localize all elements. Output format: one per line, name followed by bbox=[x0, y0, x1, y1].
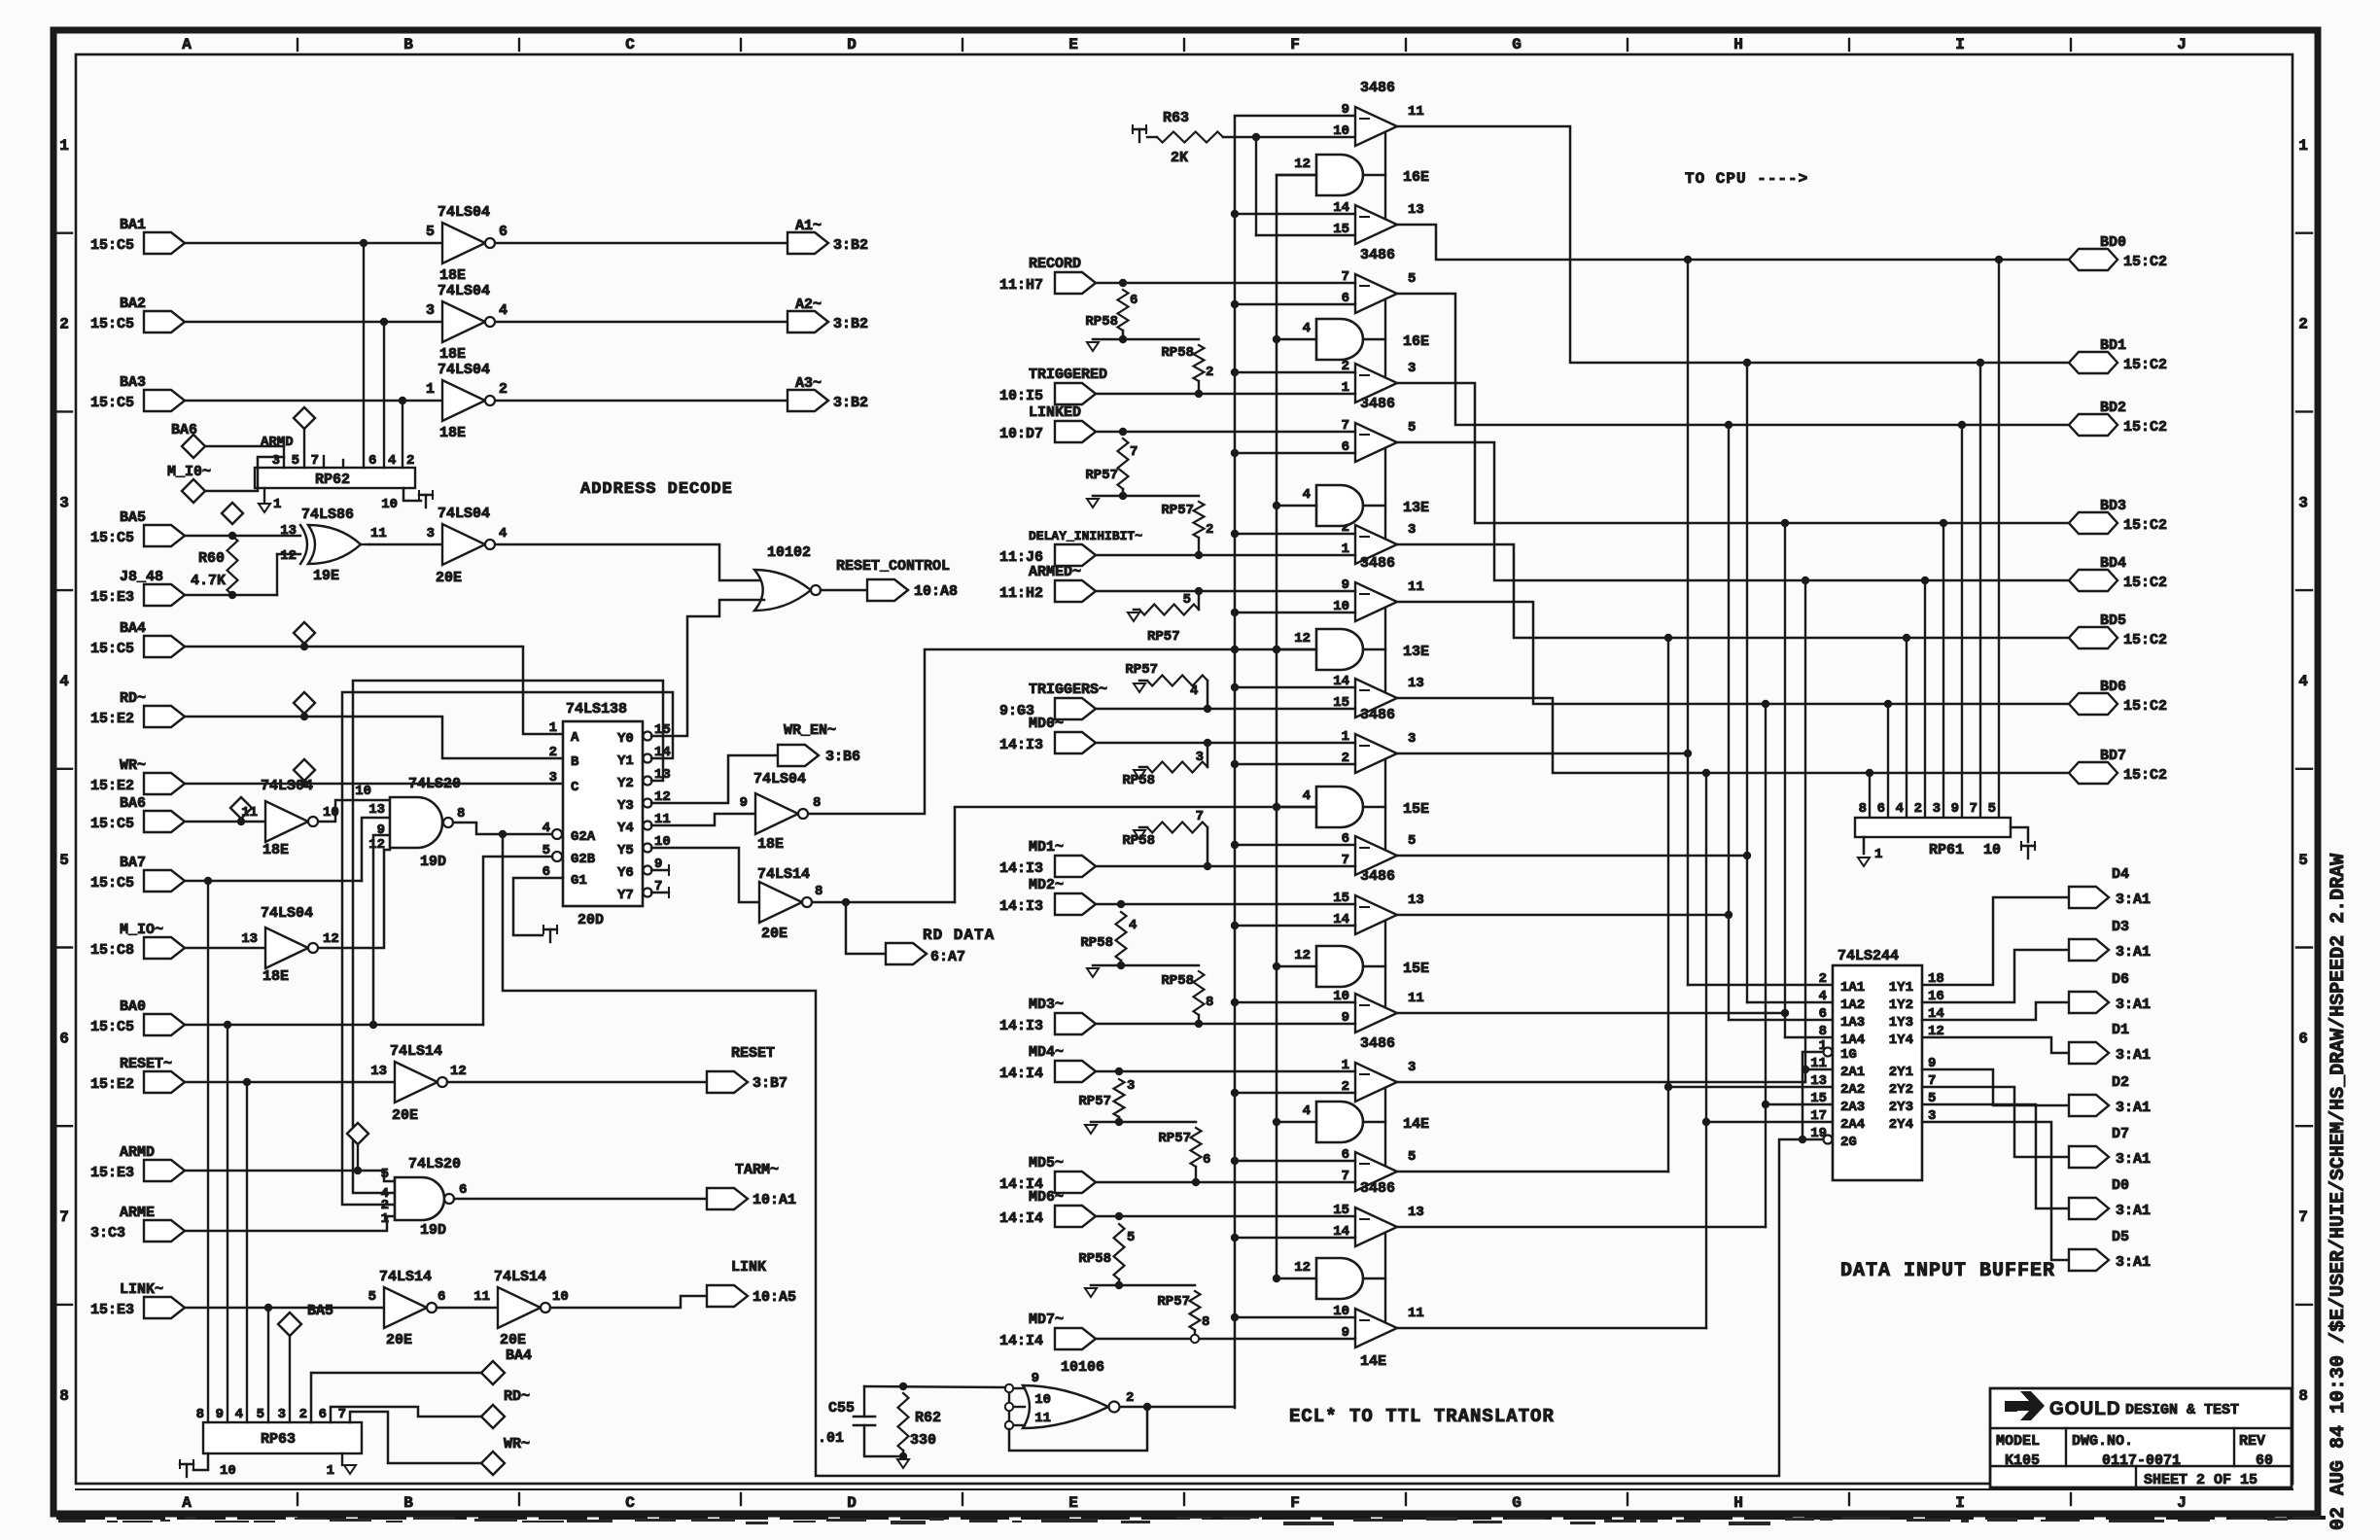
svg-text:10: 10 bbox=[355, 784, 371, 799]
svg-text:15:C5: 15:C5 bbox=[90, 395, 134, 411]
svg-text:BA0: BA0 bbox=[120, 998, 146, 1015]
svg-text:2: 2 bbox=[1206, 522, 1213, 538]
svg-text:3486: 3486 bbox=[1360, 396, 1395, 412]
svg-text:F: F bbox=[1290, 36, 1300, 53]
svg-text:RP58: RP58 bbox=[1078, 1251, 1111, 1267]
svg-text:4: 4 bbox=[1129, 918, 1137, 933]
svg-text:14:I4: 14:I4 bbox=[999, 1066, 1043, 1082]
svg-text:6: 6 bbox=[59, 1031, 69, 1048]
svg-text:3:B6: 3:B6 bbox=[825, 749, 860, 765]
svg-text:9: 9 bbox=[1342, 102, 1349, 118]
svg-text:3:A1: 3:A1 bbox=[2116, 892, 2151, 908]
svg-text:RP63: RP63 bbox=[261, 1431, 296, 1448]
svg-text:RP58: RP58 bbox=[1085, 314, 1118, 330]
svg-text:MD5~: MD5~ bbox=[1029, 1155, 1064, 1172]
svg-text:8: 8 bbox=[2298, 1387, 2308, 1405]
svg-text:6: 6 bbox=[1130, 293, 1137, 308]
svg-text:DATA INPUT BUFFER: DATA INPUT BUFFER bbox=[1840, 1260, 2055, 1282]
svg-text:15:C8: 15:C8 bbox=[90, 942, 134, 959]
svg-text:4: 4 bbox=[1896, 801, 1904, 817]
svg-text:8: 8 bbox=[196, 1407, 204, 1422]
svg-text:BA6: BA6 bbox=[120, 795, 146, 812]
svg-text:RESET~: RESET~ bbox=[120, 1056, 172, 1072]
svg-text:15:E3: 15:E3 bbox=[90, 589, 134, 606]
svg-text:13: 13 bbox=[370, 1064, 387, 1079]
svg-text:74LS04: 74LS04 bbox=[437, 283, 490, 299]
svg-text:3: 3 bbox=[1408, 361, 1416, 376]
svg-text:1: 1 bbox=[1874, 847, 1882, 862]
svg-text:10102: 10102 bbox=[767, 544, 811, 561]
svg-text:BA5: BA5 bbox=[120, 509, 146, 526]
svg-text:6: 6 bbox=[1877, 801, 1885, 817]
svg-text:13: 13 bbox=[368, 802, 385, 818]
svg-text:10: 10 bbox=[381, 497, 398, 512]
svg-text:BD1: BD1 bbox=[2100, 337, 2126, 354]
svg-text:3:B7: 3:B7 bbox=[752, 1075, 787, 1092]
svg-text:RESET: RESET bbox=[731, 1045, 775, 1062]
svg-text:DELAY_INIHIBIT~: DELAY_INIHIBIT~ bbox=[1029, 529, 1142, 543]
svg-text:74LS20: 74LS20 bbox=[408, 776, 461, 792]
svg-text:15:C2: 15:C2 bbox=[2123, 517, 2167, 534]
svg-text:A3~: A3~ bbox=[795, 375, 822, 392]
svg-text:2Y1: 2Y1 bbox=[1889, 1065, 1913, 1080]
svg-text:I: I bbox=[1955, 1494, 1965, 1512]
svg-text:1Y3: 1Y3 bbox=[1889, 1015, 1913, 1031]
svg-text:16E: 16E bbox=[1403, 333, 1429, 350]
svg-text:12: 12 bbox=[280, 548, 297, 564]
svg-text:3:A1: 3:A1 bbox=[2116, 1151, 2151, 1168]
svg-text:3: 3 bbox=[1196, 750, 1204, 765]
svg-text:RD~: RD~ bbox=[120, 690, 146, 707]
svg-text:3486: 3486 bbox=[1360, 707, 1395, 723]
svg-text:C: C bbox=[625, 1494, 635, 1512]
svg-text:11:H2: 11:H2 bbox=[999, 585, 1043, 602]
svg-text:20E: 20E bbox=[761, 926, 787, 942]
svg-text:11: 11 bbox=[1408, 579, 1424, 595]
svg-text:BA4: BA4 bbox=[506, 1347, 532, 1364]
svg-text:9: 9 bbox=[740, 795, 748, 811]
svg-text:2: 2 bbox=[2298, 316, 2308, 333]
svg-text:2: 2 bbox=[549, 745, 557, 760]
svg-text:MD1~: MD1~ bbox=[1029, 839, 1064, 856]
svg-text:MD6~: MD6~ bbox=[1029, 1189, 1064, 1206]
svg-text:12: 12 bbox=[1294, 1260, 1311, 1276]
svg-text:2A2: 2A2 bbox=[1840, 1082, 1865, 1098]
svg-text:20E: 20E bbox=[386, 1332, 412, 1348]
svg-text:4: 4 bbox=[235, 1407, 243, 1422]
svg-text:D5: D5 bbox=[2112, 1229, 2129, 1245]
svg-text:15:C5: 15:C5 bbox=[90, 641, 134, 657]
svg-text:C55: C55 bbox=[828, 1400, 855, 1417]
svg-text:D3: D3 bbox=[2112, 919, 2129, 935]
svg-text:3:A1: 3:A1 bbox=[2116, 1203, 2151, 1219]
svg-text:7: 7 bbox=[1130, 444, 1137, 460]
svg-text:14:I3: 14:I3 bbox=[999, 1018, 1043, 1034]
svg-text:D1: D1 bbox=[2112, 1022, 2129, 1038]
svg-text:3:A1: 3:A1 bbox=[2116, 997, 2151, 1013]
svg-text:BD0: BD0 bbox=[2100, 234, 2126, 251]
svg-text:2G: 2G bbox=[1840, 1135, 1857, 1150]
svg-text:A1~: A1~ bbox=[795, 218, 822, 234]
svg-text:13: 13 bbox=[241, 931, 258, 947]
svg-text:3: 3 bbox=[426, 302, 435, 319]
svg-text:4: 4 bbox=[542, 821, 550, 836]
svg-text:9: 9 bbox=[1951, 801, 1959, 817]
svg-text:74LS04: 74LS04 bbox=[261, 905, 313, 922]
svg-text:6: 6 bbox=[368, 453, 376, 469]
svg-text:7: 7 bbox=[338, 1407, 346, 1422]
svg-text:.01: .01 bbox=[818, 1430, 844, 1447]
svg-text:E: E bbox=[1068, 36, 1078, 53]
svg-text:1: 1 bbox=[273, 497, 281, 512]
svg-text:15:C5: 15:C5 bbox=[90, 316, 134, 332]
svg-text:18E: 18E bbox=[439, 267, 466, 284]
svg-text:5: 5 bbox=[1408, 420, 1416, 436]
svg-text:19D: 19D bbox=[420, 1222, 446, 1239]
svg-text:13: 13 bbox=[1408, 202, 1424, 218]
svg-text:1: 1 bbox=[426, 381, 435, 398]
svg-text:8: 8 bbox=[457, 806, 465, 822]
svg-text:4: 4 bbox=[499, 526, 507, 542]
svg-text:J8_48: J8_48 bbox=[120, 569, 163, 585]
svg-text:9: 9 bbox=[1032, 1371, 1039, 1386]
svg-text:15:C5: 15:C5 bbox=[90, 530, 134, 546]
svg-text:3: 3 bbox=[1408, 1060, 1416, 1075]
svg-text:2K: 2K bbox=[1171, 150, 1188, 166]
svg-text:3: 3 bbox=[59, 494, 69, 511]
svg-text:15: 15 bbox=[1810, 1091, 1827, 1106]
svg-text:4: 4 bbox=[1190, 683, 1198, 699]
svg-text:15:E2: 15:E2 bbox=[90, 1076, 134, 1093]
svg-text:M_IO~: M_IO~ bbox=[120, 922, 163, 938]
svg-text:13: 13 bbox=[1408, 892, 1424, 908]
svg-text:8: 8 bbox=[1206, 995, 1213, 1010]
svg-text:6: 6 bbox=[1819, 1006, 1827, 1022]
svg-text:LINK: LINK bbox=[731, 1259, 766, 1276]
svg-text:14:I3: 14:I3 bbox=[999, 860, 1043, 877]
svg-text:LINK~: LINK~ bbox=[120, 1281, 163, 1298]
svg-text:D2: D2 bbox=[2112, 1074, 2129, 1091]
svg-text:7: 7 bbox=[2298, 1208, 2308, 1226]
svg-text:11: 11 bbox=[370, 526, 387, 542]
svg-text:J: J bbox=[2177, 36, 2187, 53]
svg-text:2Y4: 2Y4 bbox=[1889, 1117, 1913, 1133]
svg-text:10: 10 bbox=[1333, 123, 1349, 139]
svg-text:WR_EN~: WR_EN~ bbox=[784, 722, 836, 739]
svg-text:15:C2: 15:C2 bbox=[2123, 767, 2167, 784]
svg-text:3: 3 bbox=[1408, 522, 1416, 538]
svg-text:10106: 10106 bbox=[1061, 1359, 1104, 1376]
svg-text:0117-0071: 0117-0071 bbox=[2102, 1452, 2181, 1469]
svg-text:D4: D4 bbox=[2112, 866, 2129, 883]
svg-text:18E: 18E bbox=[439, 346, 466, 363]
svg-text:14:I4: 14:I4 bbox=[999, 1210, 1043, 1227]
svg-text:B: B bbox=[403, 1494, 413, 1512]
svg-text:TO CPU ---->: TO CPU ----> bbox=[1685, 170, 1808, 188]
svg-text:A: A bbox=[571, 730, 579, 746]
svg-text:BD6: BD6 bbox=[2100, 679, 2126, 695]
svg-text:ECL* TO TTL TRANSLATOR: ECL* TO TTL TRANSLATOR bbox=[1289, 1406, 1555, 1427]
svg-text:R62: R62 bbox=[915, 1410, 941, 1426]
svg-text:2: 2 bbox=[1206, 365, 1213, 380]
svg-text:5: 5 bbox=[292, 453, 299, 469]
svg-text:3: 3 bbox=[2298, 494, 2308, 511]
svg-text:Y1: Y1 bbox=[617, 753, 634, 769]
svg-text:60: 60 bbox=[2256, 1452, 2273, 1469]
svg-text:RP58: RP58 bbox=[1161, 345, 1194, 361]
svg-text:RP57: RP57 bbox=[1078, 1094, 1111, 1109]
svg-text:K105: K105 bbox=[2005, 1452, 2040, 1469]
svg-text:Y4: Y4 bbox=[617, 821, 634, 836]
svg-text:74LS04: 74LS04 bbox=[437, 362, 490, 378]
svg-text:4: 4 bbox=[2298, 673, 2308, 690]
svg-text:11: 11 bbox=[1810, 1056, 1827, 1071]
svg-text:19D: 19D bbox=[420, 854, 446, 870]
svg-text:2: 2 bbox=[406, 453, 414, 469]
svg-text:15:C5: 15:C5 bbox=[90, 875, 134, 892]
svg-text:G1: G1 bbox=[571, 873, 587, 889]
svg-text:WR~: WR~ bbox=[120, 757, 146, 774]
svg-text:74LS04: 74LS04 bbox=[437, 204, 490, 221]
svg-text:3:B2: 3:B2 bbox=[833, 237, 868, 254]
svg-text:2: 2 bbox=[59, 316, 69, 333]
svg-text:74LS244: 74LS244 bbox=[1837, 948, 1899, 964]
svg-text:ARMD: ARMD bbox=[261, 435, 294, 450]
svg-text:4: 4 bbox=[1303, 487, 1311, 503]
svg-text:3486: 3486 bbox=[1360, 80, 1395, 96]
svg-text:3: 3 bbox=[549, 770, 557, 786]
svg-text:74LS04: 74LS04 bbox=[753, 771, 806, 787]
svg-text:13: 13 bbox=[1408, 1205, 1424, 1220]
svg-text:4: 4 bbox=[1303, 321, 1311, 336]
svg-text:RP58: RP58 bbox=[1122, 833, 1155, 849]
svg-text:9: 9 bbox=[216, 1407, 224, 1422]
svg-text:BD7: BD7 bbox=[2100, 748, 2126, 764]
svg-text:5: 5 bbox=[1127, 1230, 1135, 1245]
svg-text:Y5: Y5 bbox=[617, 843, 634, 858]
svg-text:02 AUG 84 10:30 /$E/USER/HUIE/: 02 AUG 84 10:30 /$E/USER/HUIE/SCHEM/HS_D… bbox=[2327, 854, 2350, 1530]
svg-text:14E: 14E bbox=[1360, 1353, 1386, 1370]
svg-text:13E: 13E bbox=[1403, 500, 1429, 516]
svg-text:15:C2: 15:C2 bbox=[2123, 357, 2167, 373]
svg-text:RP61: RP61 bbox=[1929, 842, 1964, 858]
svg-text:3: 3 bbox=[1933, 801, 1941, 817]
svg-text:10:A8: 10:A8 bbox=[914, 583, 958, 600]
svg-text:8: 8 bbox=[59, 1387, 69, 1405]
svg-text:SHEET 2 OF 15: SHEET 2 OF 15 bbox=[2144, 1472, 2257, 1488]
svg-text:3: 3 bbox=[1127, 1078, 1135, 1094]
svg-text:3:B2: 3:B2 bbox=[833, 395, 868, 411]
svg-text:74LS14: 74LS14 bbox=[390, 1043, 442, 1060]
svg-text:GOULD: GOULD bbox=[2049, 1399, 2121, 1419]
svg-text:3:A1: 3:A1 bbox=[2116, 944, 2151, 961]
svg-text:1: 1 bbox=[381, 1211, 389, 1227]
svg-text:74LS14: 74LS14 bbox=[379, 1269, 432, 1285]
svg-text:3:A1: 3:A1 bbox=[2116, 1100, 2151, 1116]
svg-text:10: 10 bbox=[552, 1289, 569, 1305]
svg-text:M_I0~: M_I0~ bbox=[167, 464, 211, 480]
svg-text:I: I bbox=[1955, 36, 1965, 53]
svg-text:1Y4: 1Y4 bbox=[1889, 1032, 1913, 1048]
svg-text:6: 6 bbox=[1203, 1152, 1210, 1168]
svg-text:BD4: BD4 bbox=[2100, 555, 2126, 572]
svg-text:15:C2: 15:C2 bbox=[2123, 419, 2167, 436]
svg-text:LINKED: LINKED bbox=[1029, 404, 1081, 421]
svg-text:12: 12 bbox=[1294, 948, 1311, 963]
svg-text:4.7K: 4.7K bbox=[191, 573, 226, 589]
svg-text:A2~: A2~ bbox=[795, 297, 822, 313]
svg-text:MD4~: MD4~ bbox=[1029, 1044, 1064, 1061]
svg-text:13: 13 bbox=[280, 523, 297, 539]
svg-text:14:I3: 14:I3 bbox=[999, 737, 1043, 753]
svg-text:D7: D7 bbox=[2112, 1126, 2129, 1142]
svg-text:6: 6 bbox=[437, 1289, 445, 1305]
svg-text:8: 8 bbox=[813, 795, 821, 811]
svg-text:2: 2 bbox=[1819, 971, 1827, 987]
svg-text:C: C bbox=[571, 780, 579, 795]
svg-text:1Y2: 1Y2 bbox=[1889, 997, 1913, 1013]
svg-text:1: 1 bbox=[2298, 137, 2308, 155]
svg-text:15:C5: 15:C5 bbox=[90, 816, 134, 832]
svg-text:8: 8 bbox=[815, 884, 822, 899]
svg-text:11: 11 bbox=[1408, 991, 1424, 1006]
svg-text:15:C5: 15:C5 bbox=[90, 237, 134, 254]
svg-text:C: C bbox=[625, 36, 635, 53]
svg-text:6: 6 bbox=[499, 224, 507, 240]
svg-text:8: 8 bbox=[1202, 1314, 1209, 1330]
svg-text:15:E2: 15:E2 bbox=[90, 711, 134, 727]
svg-text:MD3~: MD3~ bbox=[1029, 997, 1064, 1013]
svg-text:4: 4 bbox=[499, 302, 507, 319]
svg-text:4: 4 bbox=[1303, 788, 1311, 804]
svg-text:D0: D0 bbox=[2112, 1177, 2129, 1194]
svg-text:ARMD: ARMD bbox=[120, 1144, 155, 1161]
svg-text:3: 3 bbox=[272, 453, 280, 469]
svg-text:18E: 18E bbox=[439, 425, 466, 441]
svg-text:MD2~: MD2~ bbox=[1029, 877, 1064, 893]
svg-text:3:B2: 3:B2 bbox=[833, 316, 868, 332]
svg-text:10: 10 bbox=[1034, 1392, 1051, 1408]
svg-text:ADDRESS DECODE: ADDRESS DECODE bbox=[580, 480, 733, 499]
svg-text:3:A1: 3:A1 bbox=[2116, 1254, 2151, 1271]
svg-text:Y6: Y6 bbox=[617, 865, 634, 881]
svg-text:4: 4 bbox=[1819, 989, 1827, 1004]
svg-text:E: E bbox=[1068, 1494, 1078, 1512]
svg-text:11: 11 bbox=[473, 1289, 490, 1305]
svg-text:18E: 18E bbox=[262, 968, 289, 985]
svg-text:Y3: Y3 bbox=[617, 798, 634, 814]
svg-text:RP58: RP58 bbox=[1122, 773, 1155, 788]
svg-text:4: 4 bbox=[1303, 1103, 1311, 1119]
svg-text:A: A bbox=[182, 1494, 192, 1512]
svg-text:3486: 3486 bbox=[1360, 1180, 1395, 1197]
svg-text:2A1: 2A1 bbox=[1840, 1065, 1865, 1080]
svg-text:DWG.NO.: DWG.NO. bbox=[2072, 1433, 2133, 1450]
svg-text:3:C3: 3:C3 bbox=[90, 1225, 125, 1242]
svg-text:19E: 19E bbox=[313, 568, 339, 584]
svg-text:15:E3: 15:E3 bbox=[90, 1165, 134, 1181]
svg-text:B: B bbox=[571, 754, 579, 770]
svg-text:2A4: 2A4 bbox=[1840, 1117, 1865, 1133]
svg-text:2: 2 bbox=[1126, 1390, 1134, 1406]
svg-text:TARM~: TARM~ bbox=[735, 1162, 779, 1178]
svg-text:5: 5 bbox=[1408, 833, 1416, 849]
svg-text:12: 12 bbox=[368, 837, 385, 853]
svg-text:10:I5: 10:I5 bbox=[999, 388, 1043, 404]
svg-text:12: 12 bbox=[323, 931, 339, 947]
svg-text:5: 5 bbox=[1408, 271, 1416, 287]
svg-text:BA3: BA3 bbox=[120, 374, 146, 391]
svg-text:RP57: RP57 bbox=[1161, 503, 1194, 518]
svg-text:15:C2: 15:C2 bbox=[2123, 575, 2167, 591]
svg-text:3: 3 bbox=[1408, 731, 1416, 747]
svg-text:15:C2: 15:C2 bbox=[2123, 632, 2167, 648]
svg-text:9: 9 bbox=[377, 822, 385, 838]
svg-text:16E: 16E bbox=[1403, 169, 1429, 186]
svg-text:RESET_CONTROL: RESET_CONTROL bbox=[836, 558, 950, 575]
svg-text:6: 6 bbox=[459, 1182, 467, 1198]
svg-text:2: 2 bbox=[1914, 801, 1922, 817]
svg-text:RP57: RP57 bbox=[1147, 629, 1180, 645]
svg-text:2: 2 bbox=[299, 1407, 307, 1422]
svg-text:1: 1 bbox=[549, 720, 557, 736]
svg-text:20E: 20E bbox=[392, 1107, 418, 1124]
svg-text:330: 330 bbox=[910, 1432, 936, 1449]
svg-text:BA1: BA1 bbox=[120, 217, 146, 233]
svg-text:18E: 18E bbox=[757, 836, 784, 853]
svg-text:6: 6 bbox=[319, 1407, 327, 1422]
svg-text:RP58: RP58 bbox=[1161, 973, 1194, 989]
svg-text:5: 5 bbox=[1988, 801, 1996, 817]
svg-text:A: A bbox=[182, 36, 192, 53]
svg-text:MODEL: MODEL bbox=[1996, 1433, 2040, 1450]
svg-text:10: 10 bbox=[323, 805, 339, 821]
svg-text:2A3: 2A3 bbox=[1840, 1100, 1865, 1115]
svg-text:11:H7: 11:H7 bbox=[999, 277, 1043, 294]
svg-text:5: 5 bbox=[1183, 592, 1191, 608]
svg-text:17: 17 bbox=[1810, 1108, 1827, 1124]
svg-text:TRIGGERS~: TRIGGERS~ bbox=[1029, 682, 1107, 698]
svg-text:7: 7 bbox=[59, 1208, 69, 1226]
svg-text:74LS138: 74LS138 bbox=[566, 701, 627, 717]
svg-text:BD5: BD5 bbox=[2100, 612, 2126, 629]
svg-text:D: D bbox=[847, 36, 857, 53]
svg-text:5: 5 bbox=[257, 1407, 264, 1422]
svg-text:BD2: BD2 bbox=[2100, 400, 2126, 416]
svg-text:Y0: Y0 bbox=[617, 731, 634, 747]
svg-text:12: 12 bbox=[450, 1064, 467, 1079]
svg-text:RP57: RP57 bbox=[1158, 1131, 1191, 1146]
svg-text:10:D7: 10:D7 bbox=[999, 426, 1043, 442]
svg-text:7: 7 bbox=[1196, 809, 1204, 824]
svg-text:6: 6 bbox=[2298, 1031, 2308, 1048]
svg-text:8: 8 bbox=[1819, 1024, 1827, 1039]
svg-text:15E: 15E bbox=[1403, 801, 1429, 818]
svg-text:74LS20: 74LS20 bbox=[408, 1156, 461, 1172]
svg-text:1Y1: 1Y1 bbox=[1889, 980, 1913, 996]
svg-text:RP57: RP57 bbox=[1125, 662, 1158, 678]
svg-text:3486: 3486 bbox=[1360, 555, 1395, 572]
svg-text:3486: 3486 bbox=[1360, 868, 1395, 885]
svg-text:10:A1: 10:A1 bbox=[752, 1192, 796, 1208]
svg-text:RP58: RP58 bbox=[1080, 935, 1113, 951]
svg-text:15:E2: 15:E2 bbox=[90, 778, 134, 794]
svg-text:1A4: 1A4 bbox=[1840, 1032, 1865, 1048]
svg-text:1A3: 1A3 bbox=[1840, 1015, 1865, 1031]
svg-text:H: H bbox=[1733, 36, 1743, 53]
svg-text:10:A5: 10:A5 bbox=[752, 1289, 796, 1306]
svg-text:RP62: RP62 bbox=[315, 472, 350, 488]
